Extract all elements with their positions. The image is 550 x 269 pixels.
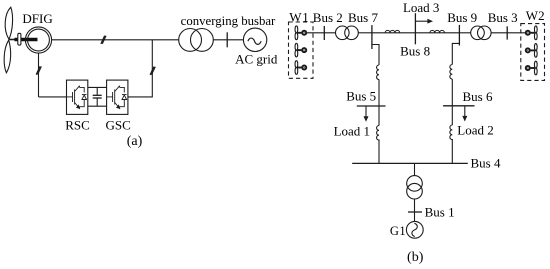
svg-text:(b): (b) [407,250,424,265]
wire main stator line [52,39,179,41]
AC grid source [243,28,266,51]
svg-text:DFIG: DFIG [22,11,52,26]
wind farm W1 dashed box [289,22,314,78]
3-phase slash on rotor drop [36,66,41,74]
transformer T4 [407,176,423,199]
svg-text:Bus 9: Bus 9 [447,10,477,25]
svg-text:AC grid: AC grid [235,52,278,67]
svg-text:G1: G1 [390,224,406,238]
W1 turbine 3 [295,61,307,75]
W2 turbine 3 [525,61,537,75]
load 3 arrow [415,19,433,24]
wire T2 to bus 7 [358,32,372,34]
bus 2 tick [323,26,325,40]
converging busbar tick [226,32,228,47]
IGBT+diode inside RSC [67,86,87,109]
W1 turbine 1 [295,26,307,40]
wire T4 to G1 [414,199,416,222]
wire bus7 to bus8 [372,32,416,34]
bus 8 bar [414,13,416,44]
line inductor L4 (horizontal) [430,30,445,32]
svg-text:Bus 5: Bus 5 [346,88,376,103]
bus 5 bar [357,105,386,107]
wire branch to bus 4 [451,139,453,163]
wind turbine blades [4,7,12,73]
svg-text:Load 1: Load 1 [334,124,370,139]
gearbox [18,33,21,45]
W1 turbine 2 [295,43,307,57]
svg-text:Bus 3: Bus 3 [488,10,518,25]
svg-text:Bus 1: Bus 1 [425,204,455,219]
wind farm W2 dashed box [521,24,545,81]
svg-text:Load 3: Load 3 [403,0,439,15]
svg-text:Bus 6: Bus 6 [463,89,493,104]
svg-text:Bus 4: Bus 4 [471,155,501,170]
wire transformer T3 to bus 3 [459,32,470,34]
svg-text:W2: W2 [526,8,545,23]
3-phase slash on stator line [101,36,106,44]
wire transformer to grid [213,39,243,41]
wire branch to bus 4 [378,140,380,164]
svg-text:Bus 7: Bus 7 [348,10,378,25]
svg-text:converging busbar: converging busbar [181,14,276,28]
wire bus 9 step down [452,43,459,64]
bus 7 bar [371,25,373,49]
DC link capacitor [93,87,102,106]
converter RSC box [67,80,88,114]
wire bus8 to bus9 [415,32,459,34]
bus 9 bar [458,25,460,46]
turbine shaft [9,39,38,41]
bus 1 tick [408,211,422,213]
W2 turbine 1 [525,26,537,40]
wire to bus 5 [378,80,380,126]
IGBT+diode inside GSC [107,86,127,109]
wire rotor drop from DFIG [38,53,40,97]
transformer T1 [179,29,214,52]
svg-text:Bus 2: Bus 2 [313,10,343,25]
load coil L6 (vertical) [450,125,452,140]
svg-text:(a): (a) [127,134,143,149]
W2 turbine 2 [525,44,537,58]
wire bus 4 to transformer T4 [414,163,416,175]
load coil L2 (vertical) [377,126,379,141]
line inductor L1 (vertical) [377,65,379,80]
wire GSC riser [128,40,153,97]
3-phase slash on riser [150,67,155,75]
DFIG generator [25,27,51,53]
bus 6 bar [443,105,474,107]
svg-text:W1: W1 [289,9,309,24]
load 1 arrow [364,106,369,122]
transformer T3 [471,26,491,40]
generator G1 [406,221,423,238]
wire rotor to RSC [39,96,67,98]
svg-text:Load 2: Load 2 [457,123,493,138]
load 2 arrow [462,106,467,122]
bus 3 tick [506,26,508,39]
converter GSC box [107,80,128,114]
svg-text:Bus 8: Bus 8 [400,44,430,59]
DC link rails [88,87,107,106]
wire to bus 6 [451,79,453,125]
wire W1 to transformer [307,32,336,34]
wire bus 7 step down [372,45,379,66]
svg-text:GSC: GSC [106,117,131,132]
wire T3 to W2 [491,32,525,34]
line inductor L5 (vertical) [450,65,452,80]
transformer T2 [336,26,359,40]
line inductor L3 (horizontal) [385,30,400,32]
svg-text:RSC: RSC [65,117,90,132]
bus 4 bar [352,162,468,164]
